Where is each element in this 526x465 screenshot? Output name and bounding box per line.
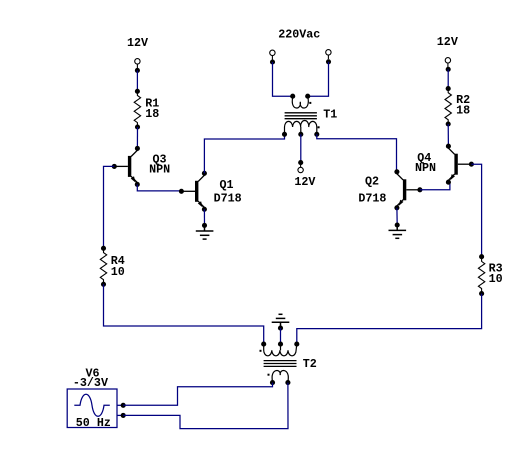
resistor R3 (478, 254, 502, 296)
svg-text:NPN: NPN (415, 161, 436, 175)
svg-text:18: 18 (145, 107, 159, 121)
wire R3 to T2 top-right (297, 294, 482, 345)
terminal 220Vac left (270, 50, 275, 60)
wire Q2 emitter to ground (396, 208, 398, 225)
wire V6 plus to T2 bottom-left (123, 383, 272, 406)
voltage source V6 (67, 366, 126, 430)
wire 220Vac left to T1 primary (273, 62, 293, 96)
svg-text:-3/3V: -3/3V (73, 376, 108, 390)
ground above T2 (flipped) (272, 314, 290, 328)
svg-text:Q1: Q1 (220, 178, 234, 192)
transistor Q1 D718 (179, 171, 242, 212)
transistor Q3 NPN (112, 146, 170, 187)
wire 12V left to R1 (136, 70, 138, 91)
ground under Q2 (389, 225, 407, 238)
wire 220Vac right to T1 primary (308, 62, 329, 96)
wire T1 mid to 12V mid terminal (300, 134, 302, 162)
svg-text:220Vac: 220Vac (278, 28, 320, 42)
svg-text:12V: 12V (437, 35, 458, 49)
wire Q4 base to R3 (471, 164, 481, 257)
transformer T2 (260, 342, 317, 386)
wire T1 secondary right to Q2 collector (317, 134, 397, 172)
resistor R4 (100, 246, 124, 287)
wire Q1 emitter to ground (203, 209, 205, 225)
svg-text:50 Hz: 50 Hz (76, 416, 111, 430)
svg-text:12V: 12V (127, 36, 148, 50)
terminal 220Vac right (326, 50, 331, 60)
wire R2 to Q4 collector (447, 124, 449, 146)
svg-text:10: 10 (489, 272, 503, 286)
terminal 12V left (135, 59, 140, 69)
ground under Q1 (196, 225, 214, 239)
wire 12V right to R2 (447, 69, 449, 88)
svg-text:D718: D718 (214, 191, 242, 205)
wire R1 to Q3 collector (136, 127, 138, 148)
svg-text:D718: D718 (358, 191, 386, 205)
terminal 12V mid (298, 160, 303, 165)
transformer T1 (282, 94, 337, 137)
resistor R2 (445, 86, 470, 127)
transistor Q2 D718 (358, 169, 422, 210)
svg-text:10: 10 (111, 265, 125, 279)
svg-text:Q2: Q2 (365, 174, 379, 188)
wire Q3 emitter to Q1 base (137, 184, 182, 191)
wire R4 to T2 top-left (104, 284, 264, 344)
wire V6 minus to T2 bottom-right (123, 383, 288, 429)
resistor R1 (134, 89, 159, 130)
terminal 12V right (445, 58, 450, 68)
wire Q3 base to R4 (104, 166, 115, 248)
svg-text:T1: T1 (323, 107, 337, 121)
transistor Q4 NPN (415, 144, 474, 185)
svg-text:12V: 12V (294, 175, 315, 189)
wire Q2 base to Q4 emitter (420, 182, 450, 190)
svg-text:18: 18 (456, 104, 470, 118)
wire Q1 collector to T1 secondary left (204, 134, 284, 173)
svg-text:NPN: NPN (149, 162, 170, 176)
svg-text:T2: T2 (303, 357, 317, 371)
wire ground to T2 top-mid (280, 328, 282, 344)
